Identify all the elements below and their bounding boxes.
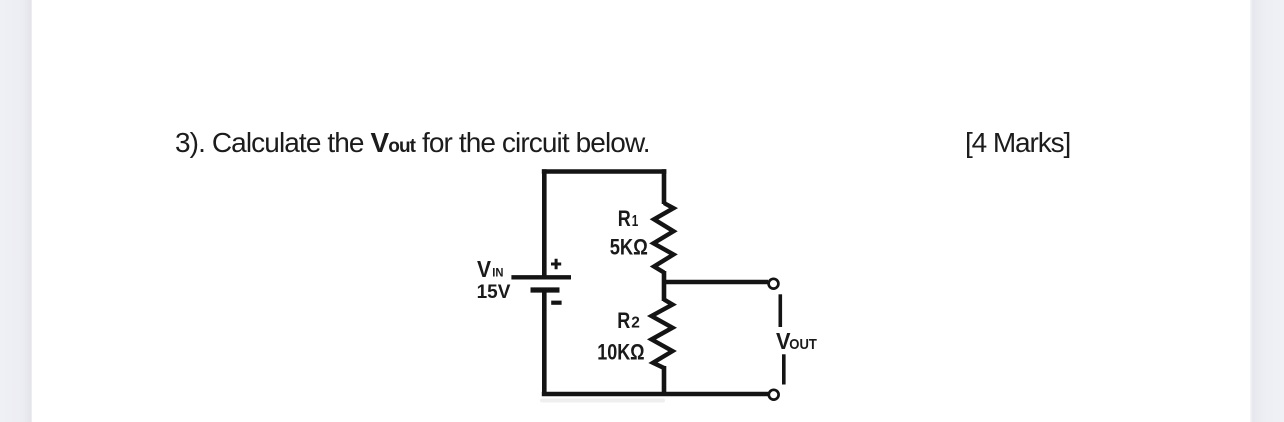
svg-text:15V: 15V bbox=[477, 282, 511, 303]
wire left vertical lower (battery - plate to bottom wire) bbox=[542, 290, 547, 396]
wire node vertical between R1 and R2 bbox=[662, 271, 667, 301]
battery minus sign bbox=[551, 301, 561, 305]
svg-text:10KΩ: 10KΩ bbox=[597, 340, 644, 365]
terminal circle top bbox=[769, 279, 779, 289]
svg-text:OUT: OUT bbox=[789, 336, 817, 353]
wire middle horizontal (divider node to top terminal) bbox=[662, 280, 768, 285]
wire top horizontal bbox=[542, 169, 667, 174]
wire bottom horizontal bbox=[542, 392, 768, 397]
scan shadow artifact under bottom wire bbox=[540, 399, 665, 403]
wire left vertical upper (top wire to battery + plate) bbox=[542, 169, 547, 276]
terminal circle bottom bbox=[769, 390, 779, 400]
resistor R2 zigzag bbox=[652, 300, 673, 369]
svg-text:R: R bbox=[617, 308, 630, 333]
battery V1 minus plate (short) bbox=[531, 287, 560, 292]
svg-text:1: 1 bbox=[632, 213, 639, 230]
marks text bbox=[965, 129, 1070, 157]
battery plus sign bbox=[551, 259, 561, 270]
terminal lead lower bbox=[782, 354, 786, 384]
wire right vertical (top wire to R1) bbox=[662, 169, 667, 204]
question heading text bbox=[175, 129, 650, 161]
svg-text:5KΩ: 5KΩ bbox=[610, 235, 648, 260]
battery V1 plus plate (long) bbox=[511, 275, 571, 279]
svg-text:V: V bbox=[477, 256, 492, 282]
svg-text:R: R bbox=[618, 206, 631, 231]
page right gutter bbox=[1250, 0, 1284, 422]
svg-text:IN: IN bbox=[492, 268, 503, 280]
resistor R1 zigzag bbox=[654, 203, 674, 273]
page left gutter bbox=[0, 0, 32, 422]
svg-text:2: 2 bbox=[631, 315, 640, 332]
wire R2 bottom to bottom wire bbox=[662, 366, 667, 394]
terminal lead upper bbox=[778, 294, 782, 327]
